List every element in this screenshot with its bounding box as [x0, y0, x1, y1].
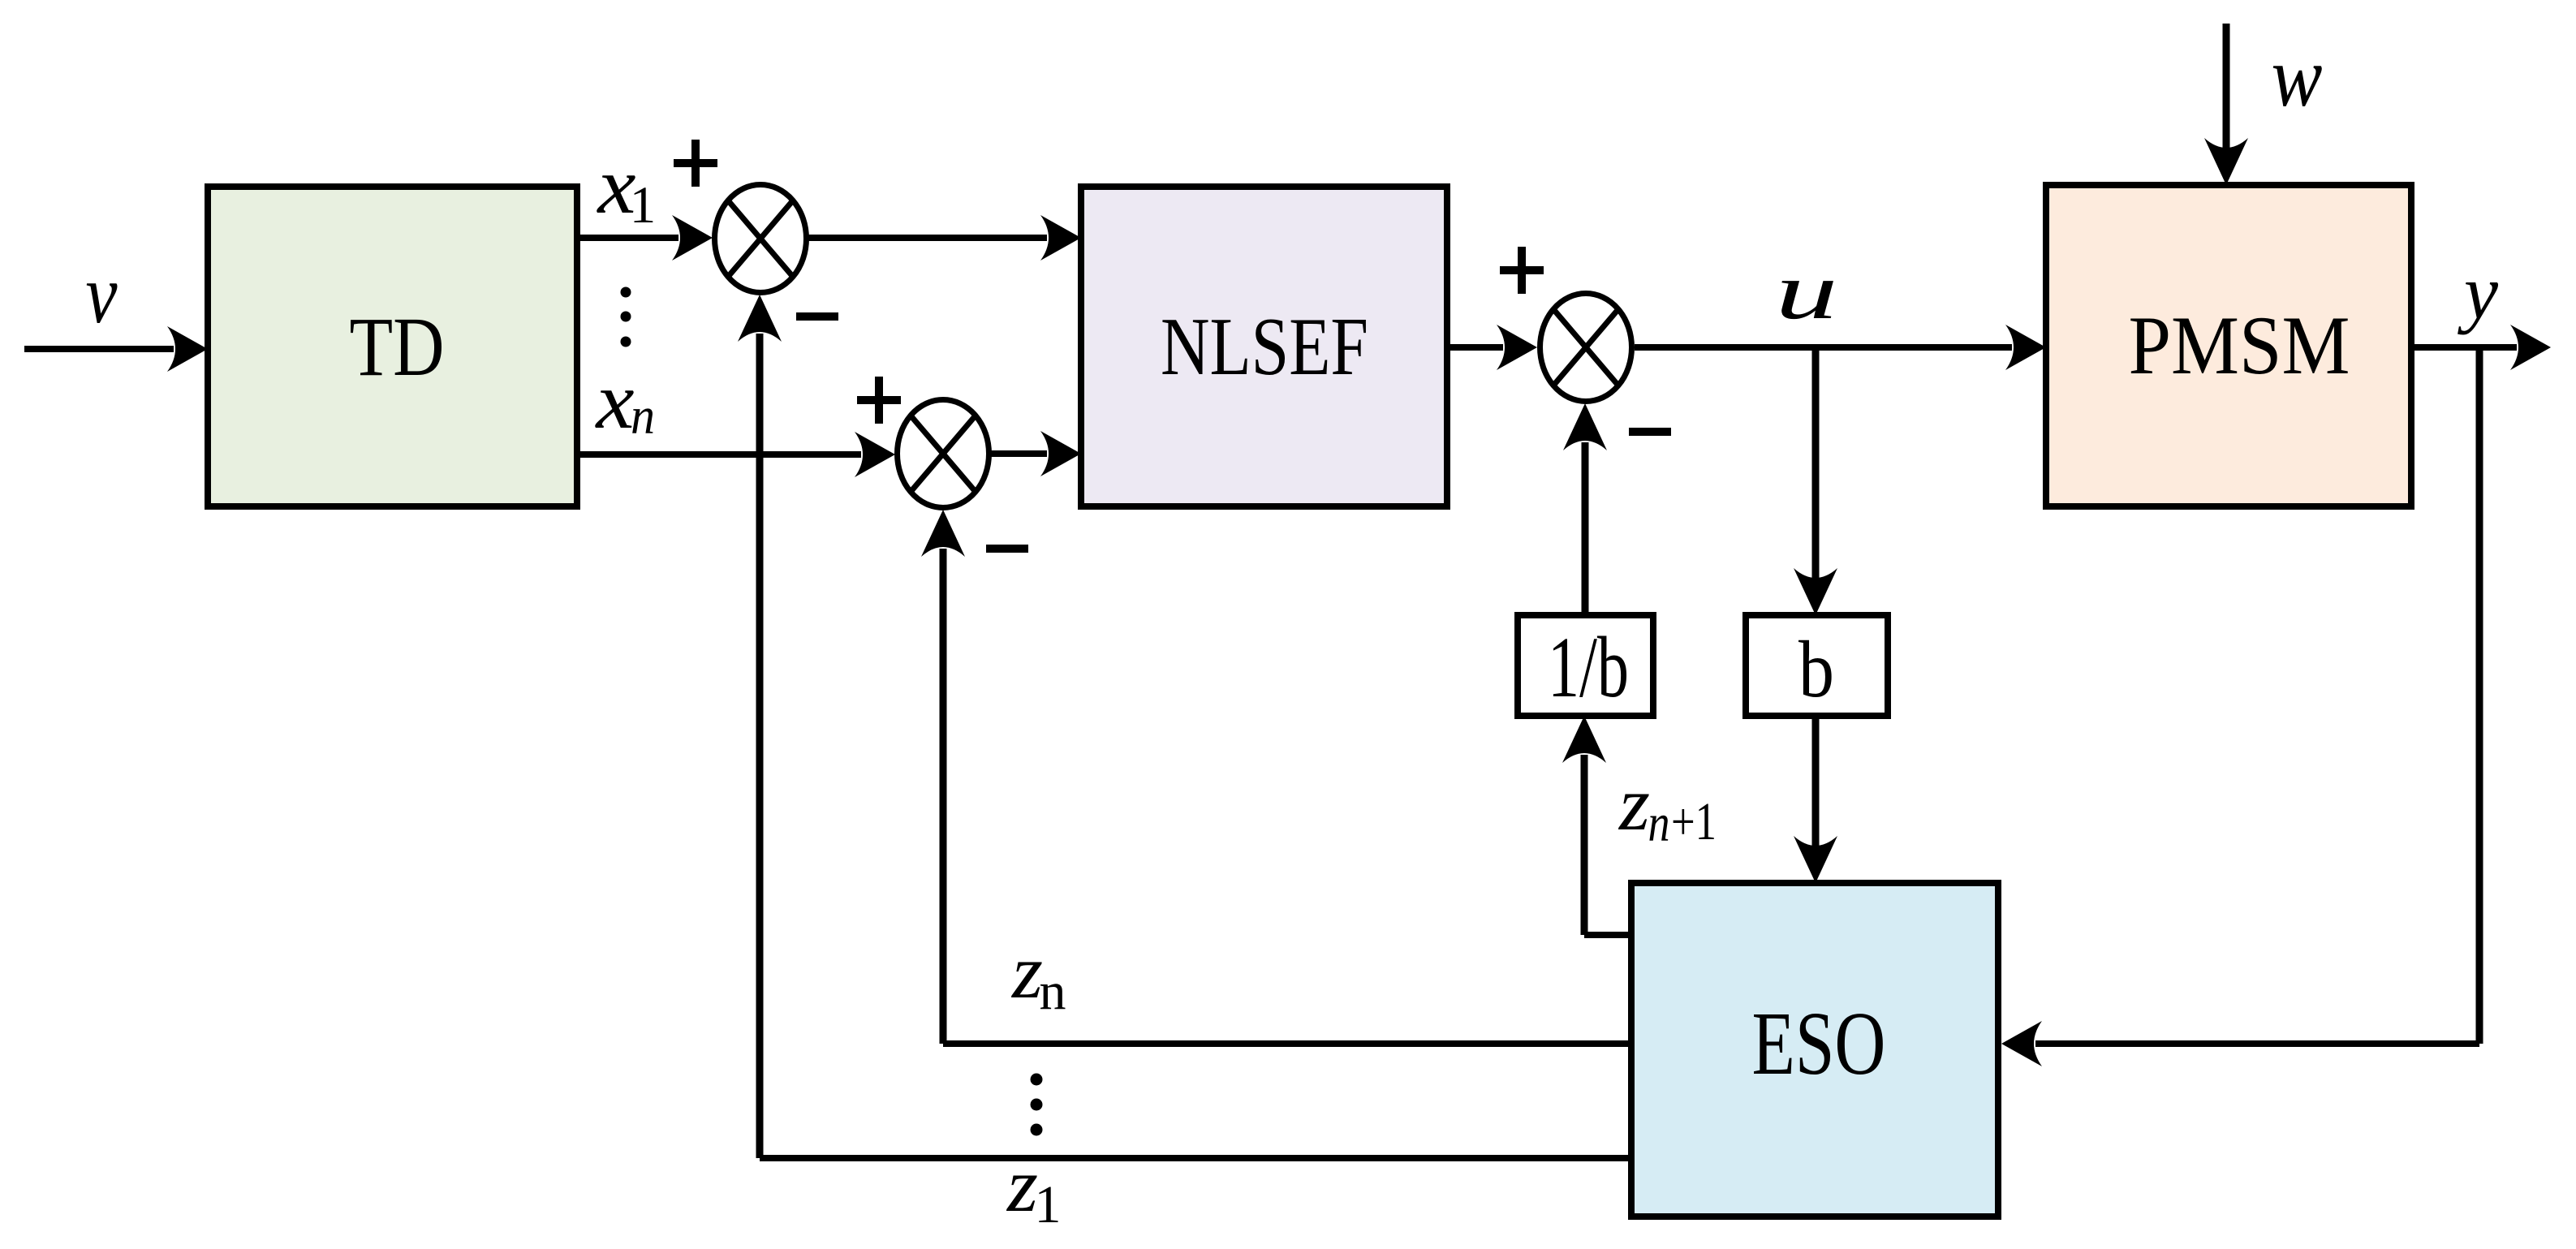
svg-text:z: z — [1006, 1143, 1038, 1228]
svg-text:n: n — [1040, 962, 1066, 1021]
svg-text:y: y — [2458, 249, 2499, 335]
svg-text:w: w — [2272, 29, 2323, 124]
svg-text:z: z — [1010, 930, 1043, 1014]
svg-text:b: b — [1798, 624, 1834, 714]
svg-text:n: n — [1648, 794, 1670, 853]
svg-text:1/b: 1/b — [1548, 620, 1629, 716]
svg-text:NLSEF: NLSEF — [1161, 301, 1368, 393]
svg-text:z: z — [1618, 762, 1650, 846]
svg-text:u: u — [1776, 246, 1838, 336]
svg-text:ESO: ESO — [1752, 994, 1886, 1094]
svg-text:TD: TD — [350, 300, 445, 394]
svg-text:+1: +1 — [1671, 792, 1717, 851]
svg-text:n: n — [631, 387, 655, 446]
svg-text:1: 1 — [630, 176, 657, 235]
svg-text:v: v — [86, 248, 118, 341]
svg-text:1: 1 — [1035, 1175, 1062, 1234]
svg-text:PMSM: PMSM — [2129, 299, 2350, 392]
svg-text:x: x — [594, 355, 634, 446]
